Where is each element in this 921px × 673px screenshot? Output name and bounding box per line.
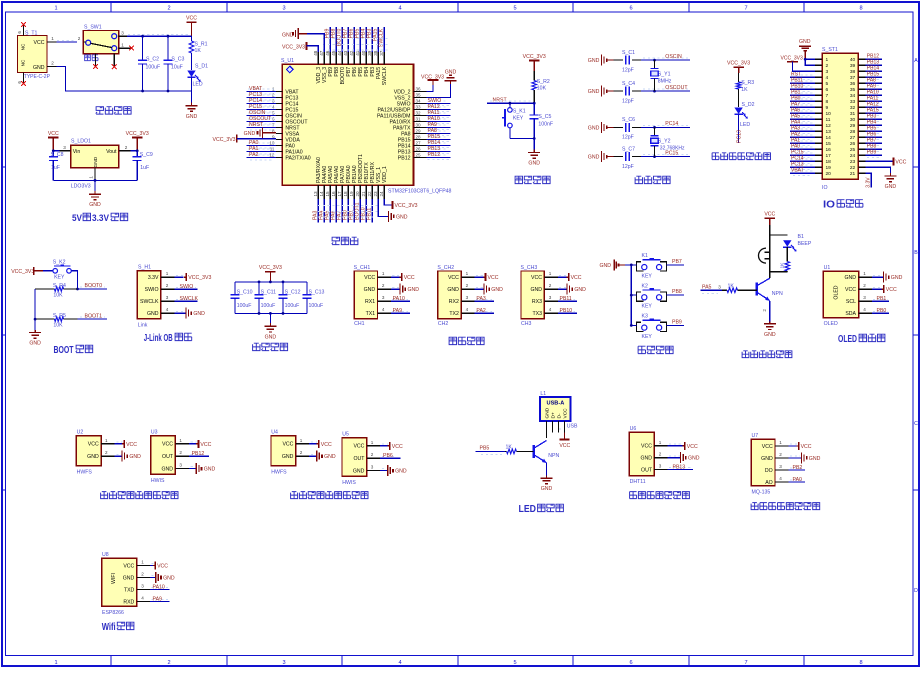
wire / net label VBAT (248, 88, 275, 90)
svg-text:TX3: TX3 (532, 311, 542, 317)
power port VCC (U8) (152, 563, 155, 565)
svg-text:HWFS: HWFS (271, 470, 287, 476)
svg-text:U3: U3 (151, 429, 158, 435)
svg-text:15: 15 (325, 191, 330, 197)
pin 3 of S_SW1 (119, 35, 127, 37)
svg-text:S_R1: S_R1 (195, 41, 208, 47)
pin 6 of S_T1 (top, no connect) (23, 25, 25, 36)
pin 32 of S_ST1 (right) (858, 106, 865, 108)
svg-text:36: 36 (416, 86, 422, 91)
wire / net label PA2 (476, 310, 492, 312)
svg-text:D+: D+ (550, 412, 556, 418)
svg-text:PA2: PA2 (249, 152, 259, 158)
pin 1 of U7 (775, 445, 788, 447)
wire / net label SWIO (428, 105, 450, 107)
svg-text:GND: GND (364, 287, 376, 293)
svg-text:PC14: PC14 (665, 121, 678, 127)
svg-text:U2: U2 (77, 429, 84, 435)
ground GND (CH1) (392, 286, 399, 288)
svg-text:10uF: 10uF (171, 64, 183, 70)
pin 26 of S_ST1 (right) (858, 142, 865, 144)
svg-text:37: 37 (379, 50, 384, 56)
svg-text:PA3: PA3 (476, 296, 486, 302)
svg-text:2: 2 (659, 452, 662, 457)
svg-text:7: 7 (826, 93, 829, 99)
svg-text:3: 3 (179, 463, 182, 468)
capacitor S_C6 12pF (614, 126, 623, 128)
caption 电源电路 (96, 107, 131, 114)
svg-text:GND: GND (186, 114, 198, 120)
pin 27 of S_ST1 (right) (858, 136, 865, 138)
svg-text:NC: NC (21, 59, 26, 66)
pin 23 VSS_1 of U1 (bottom) (377, 185, 379, 199)
svg-text:NRST: NRST (493, 97, 508, 103)
svg-text:18: 18 (343, 191, 348, 197)
svg-text:8: 8 (859, 5, 862, 11)
svg-text:S_C1: S_C1 (622, 50, 635, 56)
pin 1 of OLED (859, 276, 872, 278)
svg-text:VCC: VCC (392, 444, 403, 450)
svg-text:S_R4: S_R4 (53, 283, 66, 289)
svg-text:VCC_3V3: VCC_3V3 (395, 203, 418, 209)
switch label 开关 (85, 55, 98, 61)
svg-text:PB10: PB10 (560, 308, 573, 314)
svg-text:SWIO: SWIO (180, 284, 194, 290)
pin 4 of S_CH1 (378, 312, 391, 314)
wire / net label PB10 (559, 310, 575, 312)
svg-text:32.768KHz: 32.768KHz (660, 145, 685, 151)
wire / net label PB4 (867, 127, 881, 129)
svg-text:100uF: 100uF (261, 303, 276, 309)
pin 34 SWIO of U1 (right) (414, 103, 427, 105)
svg-text:GND: GND (163, 576, 175, 582)
ground GND (U7) (790, 455, 800, 457)
power port VCC (U6) (669, 443, 681, 445)
svg-text:B: B (914, 250, 918, 256)
svg-text:LED: LED (193, 82, 203, 88)
svg-text:4: 4 (398, 5, 401, 11)
svg-text:GND: GND (447, 287, 459, 293)
svg-text:2: 2 (779, 452, 782, 457)
svg-text:D: D (914, 588, 918, 594)
svg-text:6: 6 (629, 660, 632, 666)
power port VCC_3V3 (filter) (265, 271, 275, 273)
svg-text:HWIS: HWIS (342, 480, 356, 486)
wire / net label PB6 (U5) (382, 455, 394, 457)
svg-text:VCC_3V3: VCC_3V3 (523, 54, 546, 60)
svg-text:K3: K3 (642, 314, 648, 320)
pin 5 of S_ST1 (left) (815, 82, 822, 84)
connector L1 USB-A (540, 397, 570, 421)
resistor S_R5 10K (35, 318, 54, 320)
svg-text:2: 2 (105, 450, 108, 455)
pin 2 of S_ST1 (left) (815, 64, 822, 66)
svg-text:1: 1 (549, 271, 552, 276)
wire top node to LED branch (770, 234, 788, 236)
wire / net label PC15 (643, 154, 688, 156)
wire / net label SWIO (176, 286, 196, 288)
svg-text:GND: GND (640, 456, 652, 462)
svg-text:LED: LED (519, 504, 537, 515)
svg-text:16: 16 (331, 191, 336, 197)
svg-text:2: 2 (166, 283, 169, 288)
bottom rail wire (53, 179, 137, 181)
svg-text:KEY: KEY (642, 304, 653, 310)
svg-text:32: 32 (416, 110, 422, 115)
wire / net label PA3 (476, 298, 492, 300)
svg-text:GND: GND (204, 467, 216, 473)
svg-text:22: 22 (850, 165, 856, 171)
svg-text:VCC: VCC (34, 40, 45, 46)
svg-text:6: 6 (17, 31, 22, 34)
svg-text:1: 1 (371, 440, 374, 445)
bottom rail wire (66, 90, 192, 92)
svg-text:GND: GND (87, 454, 99, 460)
wire T1.VCC to SW1 (57, 39, 76, 41)
pin 1 of U6 (654, 445, 667, 447)
pin 33 of S_ST1 (right) (858, 100, 865, 102)
svg-text:2: 2 (826, 63, 829, 69)
pushbutton S_K2 KEY (53, 269, 58, 274)
svg-text:VCC: VCC (488, 275, 499, 281)
svg-text:S_R5: S_R5 (53, 313, 66, 319)
pin 34 of S_ST1 (right) (858, 94, 865, 96)
caption 分离式红外开关模块 (1) (101, 492, 178, 499)
pin 12 of S_ST1 (left) (815, 124, 822, 126)
svg-text:30: 30 (416, 122, 422, 127)
svg-text:15: 15 (826, 141, 832, 147)
svg-text:2: 2 (51, 61, 54, 66)
junction (533, 137, 536, 140)
connector U3 HWIS (151, 436, 176, 475)
svg-text:33: 33 (850, 99, 856, 105)
svg-text:1: 1 (382, 271, 385, 276)
wire VDD_2 pin 36 to VCC_3V3 (426, 85, 433, 92)
wire / net label PA5 (alarm base) (702, 292, 718, 294)
svg-text:RXD: RXD (123, 599, 134, 605)
svg-text:VCC: VCC (282, 442, 293, 448)
svg-text:VCC: VCC (762, 444, 773, 450)
svg-text:B1: B1 (798, 234, 804, 240)
svg-text:RX1: RX1 (365, 299, 375, 305)
svg-text:GND: GND (89, 202, 101, 208)
svg-text:PB9: PB9 (672, 319, 682, 325)
svg-text:2: 2 (549, 283, 552, 288)
pin 1 of S_CH1 (378, 276, 391, 278)
power port VCC (U4) (311, 441, 317, 443)
pin 1 of U3 (175, 443, 188, 445)
wire / net label PA12 (867, 109, 881, 111)
wire emitter to GND (lamp) (546, 463, 548, 476)
svg-text:S_C10: S_C10 (237, 290, 253, 296)
ground GND (U2) (116, 453, 121, 455)
svg-text:27: 27 (416, 140, 422, 145)
svg-text:GND: GND (528, 161, 540, 167)
pin 2 of L1 (552, 421, 554, 433)
svg-text:U7: U7 (752, 433, 759, 439)
svg-text:GND: GND (147, 311, 159, 317)
pin 2 Vout of S_LDO1 (119, 150, 130, 152)
svg-text:VCC: VCC (687, 444, 698, 450)
svg-text:100uF: 100uF (237, 303, 252, 309)
pin 22 PB11/RX of U1 (bottom) (371, 185, 373, 199)
svg-text:7: 7 (744, 660, 747, 666)
resistor S_R3 1K (738, 73, 740, 82)
wire bottom of reset (510, 138, 534, 140)
wire / net label PA4 (791, 122, 814, 124)
svg-text:28: 28 (416, 134, 422, 139)
wire / net label BOOT0 (341, 27, 343, 52)
pin 17 PA7/A0 of U1 (bottom) (341, 185, 343, 199)
svg-text:J-Link OB: J-Link OB (144, 333, 173, 344)
svg-text:20: 20 (355, 191, 360, 197)
svg-text:KEY: KEY (513, 116, 524, 122)
pin 8 VSSA of U1 (left) (276, 133, 282, 135)
wire VSS_2 pin 35 to GND (426, 84, 450, 98)
svg-text:1: 1 (141, 560, 144, 565)
pin 13 PA3/RX/A0 of U1 (bottom) (317, 185, 319, 199)
wire / net label PB1 (353, 199, 355, 223)
wire / net label PA0 (791, 146, 814, 148)
pin 17 of S_ST1 (left) (815, 154, 822, 156)
svg-text:14: 14 (826, 135, 832, 141)
wire / net label PB11 (371, 199, 373, 223)
pin 27 PB14 of U1 (right) (414, 145, 427, 147)
svg-text:S_R3: S_R3 (741, 80, 754, 86)
svg-text:7: 7 (744, 5, 747, 11)
power port VCC (CH3) (559, 274, 567, 276)
power port VCC (OLED pin2) (873, 286, 881, 288)
wire trunk (keys) (630, 265, 632, 326)
svg-text:VCC: VCC (448, 275, 459, 281)
svg-text:S_SW1: S_SW1 (84, 25, 102, 31)
capacitor S_C9 1uF (136, 151, 138, 157)
ground GND (CH2) (476, 286, 483, 288)
svg-text:OSCIN: OSCIN (665, 54, 682, 60)
svg-text:VCC: VCC (801, 444, 812, 450)
svg-text:OLED: OLED (824, 321, 838, 327)
wire / net label PA15 (867, 115, 881, 117)
svg-text:25: 25 (416, 152, 422, 157)
pin 14 PA4/A0 of U1 (bottom) (323, 185, 325, 199)
svg-text:GND: GND (588, 125, 600, 131)
power port VCC_3V3 (indicator) (733, 66, 743, 68)
svg-text:OLED: OLED (838, 334, 857, 345)
pin 33 PA12/USB/DP of U1 (right) (414, 109, 427, 111)
svg-text:GND: GND (600, 263, 612, 269)
pin 37 of S_ST1 (right) (858, 76, 865, 78)
svg-text:S_Y2: S_Y2 (658, 139, 671, 145)
svg-text:VCC: VCC (531, 275, 542, 281)
wire / net label PA5 (791, 116, 814, 118)
pin 40 PB4 of U1 (top) (365, 52, 367, 64)
svg-text:1K: 1K (506, 445, 513, 451)
wire / net label OSCIN (248, 112, 275, 114)
svg-text:SCL: SCL (846, 299, 856, 305)
svg-text:4: 4 (141, 596, 144, 601)
caption 按键电路 (638, 346, 673, 353)
svg-text:23: 23 (373, 191, 378, 197)
power port VCC (ST1 pin 23) (866, 160, 894, 162)
connector S_CH2 (438, 271, 461, 319)
svg-text:WIFI: WIFI (111, 573, 117, 584)
ground GND (U8) (152, 575, 156, 577)
svg-text:GND: GND (93, 156, 99, 167)
wire VDD_1 pin 24 to VCC_3V3 (384, 199, 392, 205)
svg-text:PB1: PB1 (877, 296, 887, 302)
caption 晶振电路 (635, 176, 670, 183)
pin 43 PB7 of U1 (top) (347, 52, 349, 64)
svg-text:S_C2: S_C2 (146, 56, 159, 62)
pin 2 of U7 (775, 457, 788, 459)
svg-text:37: 37 (850, 75, 856, 81)
svg-text:GND: GND (33, 65, 45, 71)
ground GND at VSSA pin 8 (263, 132, 277, 134)
pin 47 VSS_3 of U1 (top) (323, 52, 325, 64)
MCU U1 STM32F103C8T6_LQFP48 (282, 64, 413, 185)
svg-text:TX1: TX1 (366, 311, 376, 317)
pin 28 of S_ST1 (right) (858, 130, 865, 132)
svg-text:PC13: PC13 (737, 130, 743, 143)
pin 2 of S_CH1 (378, 288, 391, 290)
pin 39 of S_ST1 (right) (858, 64, 865, 66)
pin 25 of S_ST1 (right) (858, 148, 865, 150)
svg-text:VBAT: VBAT (791, 168, 804, 174)
svg-text:GND: GND (761, 456, 773, 462)
wire / net label PA8 (867, 85, 881, 87)
svg-text:PB12: PB12 (398, 155, 411, 161)
svg-text:1: 1 (179, 438, 182, 443)
wire pin1/pin2 to GND (805, 58, 815, 60)
wire / net label PB2 (U7) (790, 467, 803, 469)
wire / net label PC14 (248, 100, 275, 102)
svg-text:L1: L1 (540, 391, 546, 397)
wire / net label OSCIN (643, 57, 688, 59)
junction (76, 288, 79, 291)
ground GND (alarm) (769, 321, 771, 324)
svg-text:3: 3 (121, 30, 124, 35)
pin 29 PA8 of U1 (right) (414, 133, 427, 135)
wire / net label PB5 (359, 27, 361, 52)
svg-text:42: 42 (349, 50, 354, 56)
power port VCC_3V3 (reset) (529, 59, 539, 61)
svg-text:RX3: RX3 (532, 299, 542, 305)
svg-text:PA9: PA9 (153, 597, 163, 603)
svg-text:100uF: 100uF (309, 303, 324, 309)
svg-text:S_R2: S_R2 (537, 79, 550, 85)
svg-text:S_D2: S_D2 (742, 102, 755, 108)
pin 2 of U2 (101, 455, 114, 457)
svg-text:1K: 1K (728, 283, 735, 289)
svg-text:S_C13: S_C13 (309, 290, 325, 296)
ground GND (U4) (311, 453, 316, 455)
wire GND to pin 47 (307, 34, 324, 53)
wire / net label PA5 (329, 199, 331, 223)
pin 1 of S_CH3 (544, 276, 557, 278)
svg-text:11: 11 (826, 117, 831, 123)
svg-text:3: 3 (826, 69, 829, 75)
svg-text:D-: D- (556, 413, 562, 418)
pin 11 of S_ST1 (left) (815, 118, 822, 120)
pin 3 PC14 of U1 (left) (276, 103, 282, 105)
svg-text:100nF: 100nF (538, 121, 553, 127)
svg-text:GND: GND (324, 454, 336, 460)
svg-text:24: 24 (850, 153, 856, 159)
wire / net label PB9 (867, 157, 881, 159)
svg-text:S_Y1: S_Y1 (658, 71, 671, 77)
svg-text:2: 2 (179, 450, 182, 455)
pin 19 PB1/A0 of U1 (bottom) (353, 185, 355, 199)
svg-text:GND: GND (844, 275, 856, 281)
power port VCC (alarm) (765, 217, 775, 219)
svg-text:1: 1 (826, 57, 829, 63)
svg-text:VDD_1: VDD_1 (382, 166, 388, 183)
power port VCC (LDO input) (48, 137, 58, 139)
svg-text:VCC: VCC (764, 212, 775, 218)
pin 4 of U7 (775, 481, 788, 483)
svg-text:2: 2 (371, 452, 374, 457)
pin 11 PA1/A0 of U1 (left) (276, 151, 282, 153)
junction (653, 59, 656, 62)
pin 10 PA0 of U1 (left) (276, 145, 282, 147)
svg-text:S_CH3: S_CH3 (521, 265, 538, 271)
wire / net label PA7 (341, 199, 343, 223)
svg-text:24: 24 (379, 191, 384, 197)
svg-text:PB0: PB0 (877, 308, 887, 314)
pin 3 Vin of S_LDO1 (60, 150, 71, 152)
wire / net label RST (791, 74, 814, 76)
pin 5 OSCIN of U1 (left) (276, 115, 282, 117)
wire / net label PB7 (347, 27, 349, 52)
pin 5 of S_T1 (bottom, no connect) (23, 73, 25, 84)
junction (269, 281, 272, 284)
pin 37 SWCLK of U1 (top) (383, 52, 385, 64)
svg-text:S_C3: S_C3 (171, 56, 184, 62)
svg-text:S_CH1: S_CH1 (354, 265, 371, 271)
svg-text:2: 2 (167, 5, 170, 11)
svg-text:BOOT: BOOT (54, 345, 74, 356)
pin 3 of OLED (859, 300, 872, 302)
svg-text:25: 25 (850, 147, 856, 153)
pushbutton S_K1 KEY (509, 103, 511, 107)
dash marks (bottom pin wires) (318, 205, 378, 207)
svg-text:Vin: Vin (73, 149, 81, 155)
capacitor S_C8 1uF (52, 151, 54, 157)
svg-text:SWCLK: SWCLK (140, 299, 159, 305)
svg-text:PA0: PA0 (793, 477, 803, 483)
svg-text:4: 4 (466, 307, 469, 312)
svg-text:PB13: PB13 (673, 465, 686, 471)
svg-text:1: 1 (89, 176, 94, 179)
svg-text:S_C9: S_C9 (140, 152, 153, 158)
pin 3 of U5 (367, 470, 380, 472)
wire / net label PA15 (377, 27, 379, 52)
wire key to BOOT0 node (71, 271, 77, 289)
svg-text:S_C12: S_C12 (285, 290, 301, 296)
wire / net label PB0 (791, 98, 814, 100)
wire / net label PB9 (329, 27, 331, 52)
LED S_D1 (187, 71, 195, 78)
capacitor S_C1 12pF (614, 59, 623, 61)
wire / net label PA6 (335, 199, 337, 223)
svg-text:3: 3 (282, 660, 285, 666)
capacitor S_C13 100uF (306, 282, 308, 295)
svg-text:SWIO: SWIO (145, 287, 159, 293)
wire / net label PA12 (428, 111, 450, 113)
pin 2 of S_CH3 (544, 288, 557, 290)
svg-text:1K: 1K (195, 48, 202, 54)
connector U8 ESP8266 (102, 558, 137, 606)
